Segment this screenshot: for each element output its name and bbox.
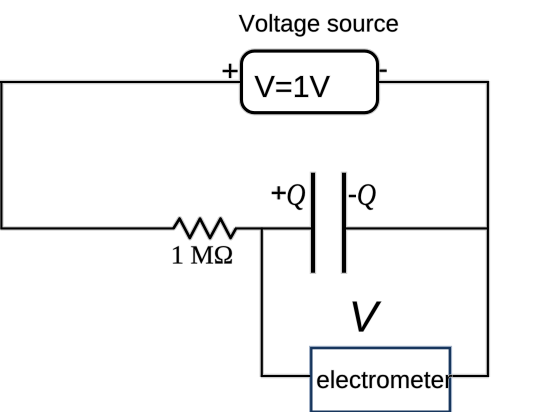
wire resistor to capacitor <box>235 227 312 229</box>
plus polarity mark <box>223 64 238 78</box>
wire top-left horizontal <box>0 81 243 83</box>
electrometer label <box>317 370 452 388</box>
capacitor charge label +Q plus sign <box>272 186 286 199</box>
wire capacitor right plate to right vertical <box>346 227 489 229</box>
soft edge halo underlay (decorative blur imitation) <box>0 51 489 412</box>
resistor value label 1 Mohm <box>173 246 232 263</box>
electrometer box <box>311 348 450 412</box>
voltage source value V=1V <box>255 76 330 97</box>
voltmeter reading label V <box>353 302 382 332</box>
wire top-right horizontal <box>376 81 489 83</box>
wire junction to electrometer left <box>261 375 313 377</box>
capacitor charge label -Q letter Q <box>358 184 375 210</box>
wire bottom-left to resistor <box>0 227 174 229</box>
wire junction drop vertical <box>261 227 263 377</box>
resistor R 1 Mohm zigzag <box>174 219 237 238</box>
minus polarity mark <box>380 70 387 72</box>
wire left vertical <box>0 81 2 229</box>
voltage source box U1 <box>242 51 378 113</box>
wire right vertical to electrometer right <box>448 375 489 377</box>
capacitor charge label -Q minus sign <box>349 195 356 197</box>
capacitor charge label +Q letter Q <box>288 184 305 210</box>
voltage source title label <box>239 14 398 36</box>
capacitor C left plate <box>311 173 315 273</box>
capacitor C right plate <box>342 173 346 273</box>
wire right vertical <box>487 81 489 377</box>
